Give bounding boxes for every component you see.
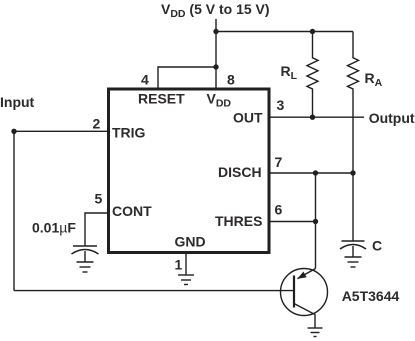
wire input vertical <box>13 131 15 290</box>
svg-text:CONT: CONT <box>112 203 152 219</box>
svg-text:RL: RL <box>281 63 298 82</box>
svg-text:OUT: OUT <box>233 109 263 125</box>
node dot RL top <box>310 29 315 34</box>
ground below transistor <box>308 328 323 337</box>
svg-text:2: 2 <box>93 115 101 131</box>
svg-text:DISCH: DISCH <box>218 164 262 180</box>
node dot THRES <box>313 219 318 224</box>
svg-text:7: 7 <box>275 154 283 170</box>
svg-text:4: 4 <box>141 72 149 88</box>
svg-text:3: 3 <box>277 97 285 113</box>
wire pin 4 connector <box>158 67 216 88</box>
wire TRIG pin 2 line <box>14 130 107 132</box>
wire GND pin 1 lead <box>185 254 187 275</box>
node dot pin4/pin8 connector <box>213 64 218 69</box>
svg-text:VDD: VDD <box>207 90 232 109</box>
svg-text:0.01µF: 0.01µF <box>32 220 76 236</box>
wire DISCH pin 7 line <box>270 172 353 174</box>
svg-text:GND: GND <box>175 233 206 249</box>
capacitor C <box>340 241 366 257</box>
svg-text:RA: RA <box>365 70 383 89</box>
transistor emitter arrowhead <box>297 272 307 279</box>
node dot DISCH vertical <box>313 170 318 175</box>
wire THRES pin 6 line <box>270 221 316 223</box>
svg-text:THRES: THRES <box>215 213 262 229</box>
ground at GND pin 1 <box>178 275 194 285</box>
ground below 0.01uF capacitor <box>77 262 94 272</box>
node dot input/TRIG <box>11 129 16 134</box>
transistor Q1 A5T3644 <box>281 269 328 328</box>
svg-text:Input: Input <box>0 94 35 110</box>
svg-text:6: 6 <box>275 202 283 218</box>
node VDD rail dot at pin 8 <box>213 29 218 34</box>
ground below capacitor C <box>345 257 362 267</box>
wire CONT pin 5 to capacitor <box>85 213 107 246</box>
IC U1 555 timer box <box>109 89 270 253</box>
wire RA bottom to capacitor C <box>352 173 354 241</box>
svg-text:Output: Output <box>369 110 415 126</box>
resistor RA <box>348 32 359 174</box>
svg-text:A5T3644: A5T3644 <box>342 288 400 304</box>
wire DISCH-THRES vertical to transistor <box>315 173 317 269</box>
svg-text:TRIG: TRIG <box>112 125 146 141</box>
wire OUT pin 3 line <box>270 116 364 118</box>
svg-text:VDD (5 V to 15 V): VDD (5 V to 15 V) <box>161 1 270 20</box>
svg-text:5: 5 <box>95 190 103 206</box>
wire bottom to transistor base <box>14 290 294 292</box>
capacitor C1 0.01uF <box>72 246 99 262</box>
node dot OUT/RL <box>310 115 315 120</box>
svg-text:8: 8 <box>227 72 235 88</box>
wire VDD label lead / pin 8 lead <box>215 19 217 88</box>
svg-text:RESET: RESET <box>138 90 185 106</box>
node dot DISCH/RA <box>350 170 355 175</box>
svg-text:C: C <box>372 238 382 254</box>
svg-text:1: 1 <box>175 257 183 273</box>
resistor RL <box>307 32 318 118</box>
wire VDD rail <box>216 31 353 33</box>
